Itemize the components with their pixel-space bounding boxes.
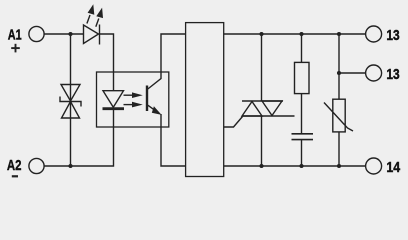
terminal 13 top bbox=[366, 26, 382, 42]
terminal 13 lower bbox=[366, 65, 382, 81]
svg-text:13: 13 bbox=[386, 67, 399, 83]
terminal A2 bbox=[29, 158, 44, 173]
wire LED cathode down into optocoupler bbox=[100, 34, 114, 91]
minus polarity mark bbox=[12, 175, 18, 177]
wire A2 to optocoupler LED cathode bbox=[44, 109, 113, 166]
triac branch wire top bbox=[261, 34, 263, 101]
junction dot bottom-left bbox=[68, 164, 72, 168]
svg-text:13: 13 bbox=[386, 28, 399, 44]
junction dot triac bottom bbox=[259, 164, 263, 168]
svg-text:A2: A2 bbox=[7, 158, 22, 174]
triac branch wire bottom bbox=[261, 116, 263, 166]
phototransistor bbox=[147, 72, 162, 115]
wire capacitor to bottom bbox=[301, 140, 303, 166]
wire resistor to capacitor bbox=[301, 94, 303, 133]
driver block U2 bbox=[186, 23, 224, 177]
svg-text:A1: A1 bbox=[8, 27, 22, 43]
junction dot 13 tap bbox=[337, 71, 341, 75]
triac bbox=[242, 101, 295, 116]
wire phototransistor collector to driver block bbox=[161, 34, 186, 72]
output top wire bbox=[224, 33, 366, 35]
terminal A1 bbox=[29, 26, 44, 41]
light coupling arrows bbox=[124, 92, 143, 107]
plus polarity mark bbox=[11, 44, 20, 53]
TVS suppressor diode branch wire bbox=[70, 34, 72, 166]
junction dot snubber top bbox=[299, 32, 303, 36]
LED indicator bbox=[84, 4, 104, 44]
junction dot triac top bbox=[259, 32, 263, 36]
varistor branch wire top bbox=[338, 34, 340, 99]
varistor branch wire bottom bbox=[338, 132, 340, 166]
junction dot varistor top bbox=[337, 32, 341, 36]
output bottom wire bbox=[224, 165, 366, 167]
TVS suppressor diode bbox=[60, 85, 81, 119]
resistor R1 bbox=[295, 62, 310, 93]
optocoupler U1 box bbox=[97, 72, 169, 127]
junction dot snubber bottom bbox=[299, 164, 303, 168]
snubber branch wire top bbox=[301, 34, 303, 62]
junction dot top-left bbox=[68, 32, 72, 36]
wire phototransistor emitter to driver block bbox=[161, 114, 186, 166]
capacitor C1 bbox=[292, 134, 314, 140]
wire to second terminal 13 bbox=[339, 72, 366, 74]
triac gate wire bbox=[224, 117, 243, 128]
wire A1 to LED anode bbox=[44, 33, 83, 35]
optocoupler internal LED bbox=[103, 91, 125, 109]
svg-text:14: 14 bbox=[386, 160, 400, 176]
junction dot varistor bottom bbox=[337, 164, 341, 168]
varistor RV1 bbox=[324, 99, 353, 132]
terminal 14 bbox=[366, 158, 382, 174]
